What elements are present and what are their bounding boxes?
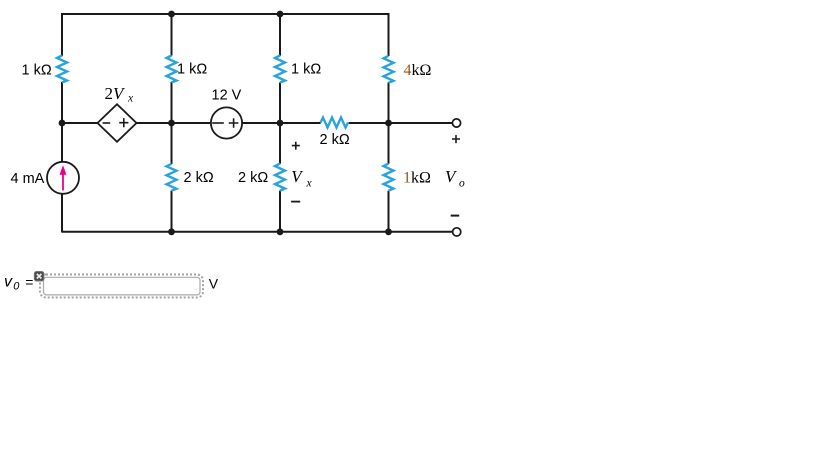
wire rail4 mid segment xyxy=(388,82,390,163)
dependent source 2Vx diamond xyxy=(98,104,137,142)
junction dot mid left rail xyxy=(59,120,66,127)
junction dot bottom rail2 xyxy=(168,228,175,235)
svg-text:1kΩ: 1kΩ xyxy=(403,170,431,187)
label 2Vx xyxy=(105,84,135,105)
svg-text:1 kΩ: 1 kΩ xyxy=(177,62,207,78)
resistor 1 kOhm rail4 bottom xyxy=(384,164,394,191)
terminal top right xyxy=(452,119,460,127)
svg-text:1 kΩ: 1 kΩ xyxy=(291,62,321,78)
minus sign Vo bottom xyxy=(451,215,460,217)
svg-text:2 kΩ: 2 kΩ xyxy=(238,170,268,186)
svg-text:V: V xyxy=(209,276,219,292)
svg-text:v: v xyxy=(4,274,13,291)
svg-text:1 kΩ: 1 kΩ xyxy=(22,63,52,79)
wire middle 12V to horizontal resistor xyxy=(242,122,321,124)
wire rail2 lower segment xyxy=(171,191,173,233)
wire middle left (node to diamond) xyxy=(62,122,98,124)
svg-text:2 kΩ: 2 kΩ xyxy=(184,170,214,186)
current source 4 mA circle xyxy=(47,162,79,194)
junction dot mid rail3 xyxy=(277,120,284,127)
answer outer dotted box xyxy=(40,275,203,298)
svg-text:V: V xyxy=(291,167,304,186)
svg-text:4 mA: 4 mA xyxy=(11,171,45,187)
minus sign Vx xyxy=(291,201,300,203)
plus sign Vo top xyxy=(452,135,460,143)
junction dot bottom rail4 xyxy=(385,228,392,235)
svg-text:12 V: 12 V xyxy=(212,88,242,104)
wire top rail xyxy=(62,13,389,15)
resistor 1 kOhm rail3 top xyxy=(275,56,285,83)
voltage source 12V circle xyxy=(211,107,242,138)
label v0 = xyxy=(4,274,33,293)
svg-text:0: 0 xyxy=(13,281,20,293)
junction dot top rail2 xyxy=(168,11,175,18)
plus sign Vx xyxy=(292,142,300,150)
wire middle horizontal resistor to top terminal xyxy=(349,122,453,124)
junction dot mid rail4 xyxy=(385,120,392,127)
junction dot bottom rail3 xyxy=(277,228,284,235)
junction dot top rail3 xyxy=(277,11,284,18)
wire rail4 lower segment xyxy=(388,191,390,233)
wire rail2 upper segment xyxy=(171,13,173,56)
label Vx xyxy=(291,167,312,190)
svg-text:2V: 2V xyxy=(105,84,127,103)
resistor 2 kOhm rail2 bottom xyxy=(167,164,177,191)
svg-text:2 kΩ: 2 kΩ xyxy=(320,132,350,148)
resistor 2 kOhm rail3 bottom (Vx) xyxy=(275,164,285,191)
wire rail4 upper segment xyxy=(388,13,390,56)
wire middle diamond to 12V source xyxy=(136,122,211,124)
wire bottom rail xyxy=(62,231,453,233)
terminal bottom right xyxy=(453,228,461,236)
svg-text:4kΩ: 4kΩ xyxy=(404,62,432,79)
junction dot mid rail2 xyxy=(168,120,175,127)
wire rail2 mid segment xyxy=(171,82,173,164)
wire rail3 upper segment xyxy=(279,13,281,56)
svg-text:V: V xyxy=(445,167,458,186)
wire left rail mid segment xyxy=(61,82,63,162)
wire left rail upper segment xyxy=(61,13,63,56)
resistor 1 kOhm left rail xyxy=(57,56,67,83)
wire rail3 lower segment xyxy=(279,191,281,233)
svg-text:o: o xyxy=(459,178,465,190)
svg-text:=: = xyxy=(25,274,33,290)
label Vo xyxy=(445,167,465,190)
resistor 4 kOhm rail4 top xyxy=(384,56,394,83)
wire left rail lower segment xyxy=(61,194,63,233)
wire rail3 mid segment xyxy=(279,83,281,164)
answer clear button xyxy=(34,271,44,281)
answer input field xyxy=(44,277,201,295)
svg-text:x: x xyxy=(127,93,134,105)
svg-text:x: x xyxy=(306,178,313,190)
resistor 1 kOhm rail2 top xyxy=(167,56,177,83)
resistor 2 kOhm horizontal xyxy=(321,118,349,128)
